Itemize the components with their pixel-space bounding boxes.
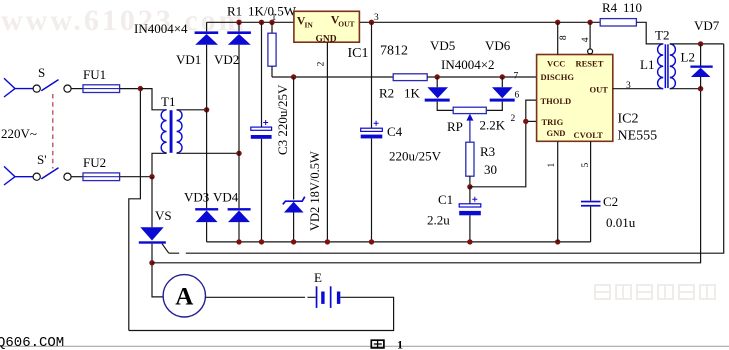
wire 18V node rail: [272, 76, 393, 78]
svg-text:A: A: [175, 284, 193, 311]
diode VD2: [227, 22, 251, 208]
svg-text:3: 3: [374, 13, 379, 23]
wire IC2 vcc: [557, 22, 559, 54]
svg-text:FU1: FU1: [83, 67, 106, 82]
wire IC2 pin5 to C2: [590, 141, 592, 200]
svg-text:S: S: [38, 65, 45, 80]
svg-text:R3: R3: [480, 144, 495, 159]
wire FU1 to node A: [120, 88, 141, 90]
svg-text:R1: R1: [227, 4, 242, 19]
figure label: [371, 337, 403, 350]
resistor R1: [268, 22, 276, 77]
wire R2 to IC2 pin7: [427, 76, 536, 78]
svg-text:OUT: OUT: [590, 84, 609, 94]
svg-text:VD4: VD4: [213, 190, 239, 205]
svg-text:S': S': [37, 152, 47, 167]
svg-text:C4: C4: [387, 124, 403, 139]
capacitor C1: [459, 187, 481, 242]
resistor R3: [466, 142, 474, 187]
regulator IC1: [294, 11, 360, 44]
wire circle2 to fuse FU1: [71, 88, 83, 90]
switch S blade: [41, 80, 58, 91]
svg-text:2: 2: [511, 114, 516, 124]
zener diode VD2z: [283, 197, 305, 242]
svg-text:7812: 7812: [380, 44, 408, 59]
svg-text:RESET: RESET: [576, 59, 604, 69]
diode VD5: [425, 77, 454, 110]
svg-text:5: 5: [581, 163, 591, 168]
svg-text:2.2K: 2.2K: [480, 118, 506, 133]
wire top rail left segment: [207, 21, 601, 23]
svg-text:T2: T2: [655, 28, 669, 43]
wire battery to bottom loop: [129, 297, 394, 330]
diode VD3: [195, 208, 218, 242]
svg-text:0.01u: 0.01u: [606, 215, 636, 230]
svg-text:6: 6: [515, 90, 520, 100]
node VS cathode / gate return: [149, 260, 154, 265]
wire T1 secondary top to VD1 column: [177, 109, 207, 111]
svg-text:FU2: FU2: [83, 155, 106, 170]
thyristor VS: [139, 227, 169, 253]
svg-text:7: 7: [514, 71, 519, 81]
transformer T2 core: [665, 44, 669, 88]
resistor R4: [600, 19, 636, 26]
diode VD7: [690, 44, 712, 89]
wire R3 to trig/thold: [470, 100, 537, 187]
wire T1 primary bottom: [152, 153, 167, 176]
svg-text:2.2u: 2.2u: [427, 213, 450, 228]
svg-text:220u/25V: 220u/25V: [389, 149, 442, 164]
svg-text:CVOLT: CVOLT: [574, 130, 604, 140]
svg-text:L1: L1: [640, 57, 654, 72]
svg-text:VD3: VD3: [184, 190, 209, 205]
svg-text:8: 8: [559, 35, 569, 40]
node trig junction: [523, 119, 528, 124]
svg-text:E: E: [314, 270, 322, 285]
svg-text:RP: RP: [447, 119, 463, 134]
svg-text:GND: GND: [316, 35, 337, 45]
wire circle2 to fuse FU2: [71, 176, 83, 178]
node VD7 top: [698, 41, 703, 46]
transformer T1 primary coil: [161, 110, 166, 153]
svg-text:VD1: VD1: [176, 52, 201, 67]
wire IC1 gnd column: [326, 42, 328, 242]
capacitor C4: [361, 22, 383, 242]
wire node B to VS anode: [151, 177, 153, 228]
node VD5 top: [435, 74, 440, 79]
svg-text:3: 3: [626, 81, 631, 91]
svg-text:IC1: IC1: [348, 46, 369, 61]
switch S contacts: [33, 85, 71, 92]
svg-text:T1: T1: [161, 94, 175, 109]
svg-text:GND: GND: [547, 128, 566, 138]
AC terminal bottom: [4, 166, 33, 185]
svg-text:NE555: NE555: [618, 129, 658, 144]
node VD2 top: [236, 20, 241, 25]
transformer T2 primary L1: [658, 44, 664, 89]
reset pin circle: [588, 49, 593, 54]
timer IC2: [537, 55, 613, 142]
switch S' blade: [41, 168, 58, 179]
battery E: [316, 286, 341, 308]
capacitor C3: [251, 22, 272, 242]
svg-text:TRIG: TRIG: [542, 117, 564, 127]
svg-text:VD2: VD2: [214, 52, 239, 67]
potentiometer RP: [453, 107, 486, 142]
dashed gang link S-S': [52, 94, 54, 169]
svg-text:L2: L2: [681, 50, 695, 65]
diode VD4: [228, 208, 251, 242]
wire zener column upper: [293, 77, 295, 200]
diode VD6: [486, 77, 514, 110]
node R4 left: [587, 20, 592, 25]
wire cathode return line: [152, 89, 701, 263]
wire T1 primary top: [140, 89, 166, 110]
node IC1 out: [369, 20, 374, 25]
fuse FU1: [83, 85, 120, 93]
node R3 bottom: [467, 184, 472, 189]
wire FU2 to node B: [120, 176, 152, 178]
svg-text:DISCHG: DISCHG: [541, 72, 575, 82]
svg-text:C3 220u/25V: C3 220u/25V: [275, 84, 290, 155]
fuse FU2: [83, 173, 120, 181]
svg-text:2: 2: [317, 61, 327, 66]
wire VS cathode down: [152, 244, 163, 297]
node R1 top: [269, 20, 274, 25]
svg-text:Q606.COM: Q606.COM: [0, 335, 64, 350]
svg-text:R4: R4: [602, 0, 618, 15]
svg-text:1: 1: [547, 163, 557, 168]
node zener top: [291, 74, 296, 79]
wire ammeter to battery: [206, 296, 316, 298]
svg-text:VD5: VD5: [430, 38, 455, 53]
AC terminal top: [4, 78, 33, 97]
svg-text:IN4004×2: IN4004×2: [441, 57, 495, 72]
svg-text:VD6: VD6: [485, 38, 511, 53]
resistor R2: [393, 74, 427, 81]
wire L2 bottom: [670, 88, 701, 90]
wire IC2 out to L1: [613, 88, 663, 90]
node A: [138, 86, 143, 91]
svg-text:OUT: OUT: [338, 20, 354, 29]
transformer T1 core: [170, 110, 173, 153]
wire VS gate line: [169, 44, 724, 253]
watermark bottom-right: [595, 285, 715, 299]
svg-text:C2: C2: [603, 194, 618, 209]
svg-text:R2: R2: [379, 86, 394, 101]
capacitor C2: [581, 201, 601, 242]
svg-text:1K: 1K: [404, 86, 421, 101]
svg-text:4: 4: [581, 37, 591, 42]
node B: [149, 174, 154, 179]
node VD6 top: [500, 74, 505, 79]
bus nodes: [236, 239, 560, 244]
svg-text:110: 110: [623, 0, 642, 15]
wire IC2 gnd pin1: [557, 141, 559, 242]
switch S' contacts: [33, 173, 71, 180]
wire L2 top: [670, 43, 724, 45]
ammeter A: [163, 275, 205, 317]
node VD7 bottom: [698, 86, 703, 91]
transformer T1 secondary coil: [177, 110, 182, 153]
svg-text:1: 1: [272, 13, 277, 23]
svg-text:30: 30: [484, 162, 497, 177]
wire ground bus: [207, 241, 591, 243]
svg-text:IN4004×4: IN4004×4: [134, 21, 188, 36]
node C3 top: [259, 20, 264, 25]
svg-text:VD7: VD7: [694, 18, 720, 33]
svg-text:VD2 18V/0.5W: VD2 18V/0.5W: [308, 151, 322, 231]
diode VD1: [195, 22, 219, 208]
node T1 sec bottom: [236, 151, 241, 156]
wire IC2 reset: [589, 22, 591, 49]
wire T1 secondary bottom to VD2 column: [177, 152, 239, 154]
transformer T2 secondary L2: [670, 44, 676, 89]
wire trig pin2: [526, 120, 537, 122]
svg-text:IN: IN: [305, 21, 314, 30]
wire node A drop to bottom loop: [129, 89, 141, 331]
wire R4 to T2 primary: [636, 22, 663, 44]
node IC2 vcc: [555, 20, 560, 25]
svg-text:VS: VS: [155, 208, 172, 223]
svg-text:IC2: IC2: [618, 112, 639, 127]
svg-text:C1: C1: [438, 192, 453, 207]
svg-text:220V~: 220V~: [1, 126, 37, 141]
svg-text:VCC: VCC: [547, 59, 565, 69]
svg-text:THOLD: THOLD: [541, 96, 572, 106]
node T1 sec top: [204, 107, 209, 112]
bottom scan line: [0, 345, 729, 347]
svg-text:1: 1: [397, 337, 403, 350]
